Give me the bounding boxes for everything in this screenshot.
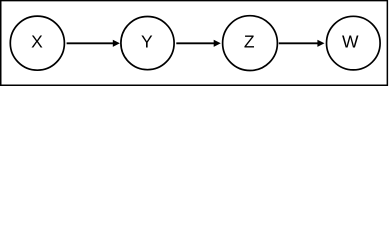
svg-text:Z: Z — [244, 32, 255, 52]
node W circle — [327, 16, 381, 70]
node X circle — [10, 16, 64, 70]
svg-text:X: X — [31, 32, 43, 52]
node Y circle — [121, 16, 174, 69]
wire arrow Z to W shaft — [279, 42, 318, 44]
svg-text:W: W — [342, 32, 359, 52]
wire arrow Z to W head — [317, 40, 324, 47]
wire arrow X to Y shaft — [67, 42, 114, 44]
wire arrow Y to Z shaft — [176, 42, 214, 44]
wire arrow X to Y head — [113, 40, 120, 47]
svg-text:Y: Y — [141, 32, 153, 52]
wire arrow Y to Z head — [214, 40, 221, 47]
node Z circle — [223, 16, 278, 71]
